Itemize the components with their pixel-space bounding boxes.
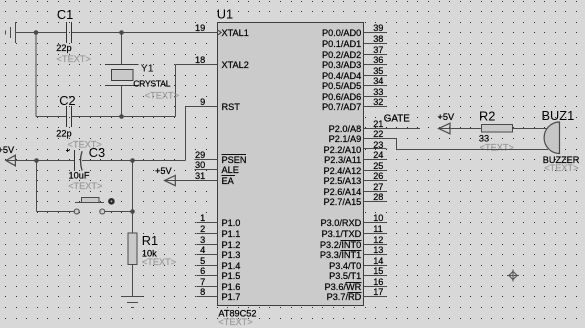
wire C2 row left xyxy=(36,116,66,118)
svg-text:R2: R2 xyxy=(479,108,495,123)
svg-text:26: 26 xyxy=(373,171,383,181)
svg-text:P0.1/AD1: P0.1/AD1 xyxy=(322,39,361,49)
pin 1 P1.0 xyxy=(197,222,218,224)
svg-text:1: 1 xyxy=(200,213,205,223)
svg-text:C2: C2 xyxy=(59,93,75,108)
svg-text:P0.3/AD3: P0.3/AD3 xyxy=(322,60,361,70)
pin 23 P2.2/A10 xyxy=(364,148,387,150)
wire C3 to RST riser xyxy=(82,160,186,162)
pin 34 P0.5/AD5 xyxy=(364,85,387,87)
wire RST riser xyxy=(185,107,187,161)
svg-text:P2.6/A14: P2.6/A14 xyxy=(323,187,361,197)
svg-text:27: 27 xyxy=(373,182,383,192)
svg-text:21: 21 xyxy=(373,119,383,129)
svg-text:P3.6/WR: P3.6/WR xyxy=(325,282,362,292)
svg-text:C3: C3 xyxy=(89,145,105,160)
svg-text:P2.5/A13: P2.5/A13 xyxy=(323,176,361,186)
pin 2 P1.1 xyxy=(197,233,218,235)
svg-text:<TEXT>: <TEXT> xyxy=(480,143,514,153)
svg-text:22p: 22p xyxy=(56,129,71,139)
svg-text:36: 36 xyxy=(373,55,383,65)
svg-text:<TEXT>: <TEXT> xyxy=(218,317,252,327)
svg-text:+5V: +5V xyxy=(438,112,455,122)
svg-text:25: 25 xyxy=(373,161,383,171)
svg-text:<TEXT>: <TEXT> xyxy=(57,54,91,64)
svg-text:10uF: 10uF xyxy=(69,170,90,180)
svg-text:P1.6: P1.6 xyxy=(222,282,241,292)
button actuator marker xyxy=(108,198,115,205)
pin 11 P3.1/TXD xyxy=(364,233,387,235)
svg-text:29: 29 xyxy=(195,150,205,160)
wire R1 column xyxy=(132,161,134,234)
pin 30 ALE xyxy=(195,169,218,171)
svg-text:P2.2/A10: P2.2/A10 xyxy=(323,145,361,155)
svg-text:5: 5 xyxy=(200,256,205,266)
svg-text:18: 18 xyxy=(195,55,205,65)
svg-text:7: 7 xyxy=(200,277,205,287)
push button xyxy=(74,209,79,214)
crystal Y1 xyxy=(121,33,123,65)
node junction crystal bottom xyxy=(119,114,124,119)
svg-text:P1.2: P1.2 xyxy=(222,240,241,250)
svg-text:38: 38 xyxy=(373,34,383,44)
svg-text:R1: R1 xyxy=(142,233,158,248)
pin 27 P2.6/A14 xyxy=(364,191,387,193)
svg-text:P1.4: P1.4 xyxy=(222,261,241,271)
svg-text:3: 3 xyxy=(200,235,205,245)
svg-text:PSEN: PSEN xyxy=(222,155,247,165)
pin 29 PSEN xyxy=(195,159,218,161)
svg-text:35: 35 xyxy=(373,66,383,76)
svg-text:P1.0: P1.0 xyxy=(222,218,241,228)
capacitor C1 xyxy=(66,22,68,43)
pin 39 P0.0/AD0 xyxy=(364,32,387,34)
pin 22 P2.1/A9 xyxy=(364,138,397,140)
svg-text:U1: U1 xyxy=(217,6,233,21)
svg-text:P2.3/A11: P2.3/A11 xyxy=(324,155,361,165)
svg-text:32: 32 xyxy=(373,97,383,107)
svg-text:BUZ1: BUZ1 xyxy=(542,108,575,123)
svg-text:P2.7/A15: P2.7/A15 xyxy=(323,197,361,207)
pin 8 P1.7 xyxy=(197,296,218,298)
svg-text:P3.3/INT1: P3.3/INT1 xyxy=(320,250,361,260)
op: microcontroller U1 AT89C52 xyxy=(218,23,364,306)
pin 5 P1.4 xyxy=(197,265,218,267)
svg-text:15: 15 xyxy=(373,266,383,276)
svg-text:<TEXT>: <TEXT> xyxy=(544,163,578,173)
svg-text:P1.3: P1.3 xyxy=(222,250,241,260)
svg-text:22p: 22p xyxy=(56,43,71,53)
svg-text:11: 11 xyxy=(373,224,383,234)
svg-text:P1.7: P1.7 xyxy=(222,292,241,302)
svg-text:12: 12 xyxy=(373,235,383,245)
C3 polarity plus xyxy=(66,150,70,152)
pin 25 P2.4/A12 xyxy=(364,170,387,172)
svg-text:XTAL1: XTAL1 xyxy=(222,28,249,38)
svg-text:<TEXT>: <TEXT> xyxy=(145,90,179,100)
svg-text:16: 16 xyxy=(373,277,383,287)
svg-text:14: 14 xyxy=(373,256,383,266)
capacitor C2 xyxy=(66,106,68,127)
svg-text:9: 9 xyxy=(200,97,205,107)
pin 32 P0.7/AD7 xyxy=(364,106,387,108)
ground terminal (top left) xyxy=(15,22,17,43)
svg-text:P3.7/RD: P3.7/RD xyxy=(327,292,362,302)
svg-text:CRYSTAL: CRYSTAL xyxy=(133,78,171,88)
svg-text:<TEXT>: <TEXT> xyxy=(142,257,176,267)
node junction C3 / R1 column xyxy=(130,158,135,163)
svg-text:P0.7/AD7: P0.7/AD7 xyxy=(322,102,361,112)
wire ground branch down to C2 xyxy=(35,33,37,117)
svg-text:P3.1/TXD: P3.1/TXD xyxy=(321,229,361,239)
svg-text:P2.4/A12: P2.4/A12 xyxy=(323,166,361,176)
pin 16 P3.6/WR xyxy=(364,286,387,288)
svg-text:8: 8 xyxy=(200,287,205,297)
pin 7 P1.6 xyxy=(197,286,218,288)
svg-text:RST: RST xyxy=(222,102,241,112)
svg-text:23: 23 xyxy=(373,140,383,150)
svg-text:P0.6/AD6: P0.6/AD6 xyxy=(322,92,361,102)
svg-text:39: 39 xyxy=(373,23,383,33)
XTAL1 clock mark xyxy=(218,30,221,34)
pin 35 P0.4/AD4 xyxy=(364,75,387,77)
svg-text:17: 17 xyxy=(373,287,383,297)
wire XTAL2 riser xyxy=(175,65,177,117)
svg-text:EA: EA xyxy=(222,176,235,186)
pin 17 P3.7/RD xyxy=(364,296,387,298)
pin 26 P2.5/A13 xyxy=(364,180,387,182)
wire R1 to ground xyxy=(132,265,134,297)
wire C1 to XTAL1 xyxy=(72,32,218,34)
svg-text:XTAL2: XTAL2 xyxy=(222,60,249,70)
svg-text:P2.1/A9: P2.1/A9 xyxy=(329,134,362,144)
svg-text:31: 31 xyxy=(195,171,205,181)
pin 6 P1.5 xyxy=(197,275,218,277)
wire buzzer bottom xyxy=(397,149,549,151)
svg-text:GATE: GATE xyxy=(384,113,410,124)
resistor R2 xyxy=(482,125,513,133)
wire ground to C1 xyxy=(16,32,67,34)
svg-text:P3.4/T0: P3.4/T0 xyxy=(329,261,361,271)
pin 14 P3.4/T0 xyxy=(364,265,387,267)
pin 38 P0.1/AD1 xyxy=(364,43,387,45)
svg-text:+5V: +5V xyxy=(155,166,172,176)
svg-text:22: 22 xyxy=(373,129,383,139)
svg-text:+5V: +5V xyxy=(0,145,15,155)
svg-text:P1.5: P1.5 xyxy=(222,271,241,281)
buzzer BUZ1 xyxy=(544,122,559,154)
svg-text:P1.1: P1.1 xyxy=(222,229,241,239)
capacitor C3 electrolytic xyxy=(74,150,76,171)
svg-text:13: 13 xyxy=(373,245,383,255)
svg-text:28: 28 xyxy=(373,192,383,202)
svg-text:P3.5/T1: P3.5/T1 xyxy=(329,271,361,281)
svg-text:37: 37 xyxy=(373,45,383,55)
pin 3 P1.2 xyxy=(197,244,218,246)
pin 13 P3.3/INT1 xyxy=(364,254,387,256)
svg-text:P0.5/AD5: P0.5/AD5 xyxy=(322,81,361,91)
wire R2 to buzzer xyxy=(513,128,549,130)
wire button column xyxy=(36,161,38,212)
svg-text:Y1: Y1 xyxy=(141,62,154,74)
svg-text:P0.0/AD0: P0.0/AD0 xyxy=(322,28,361,38)
svg-text:ALE: ALE xyxy=(222,165,239,175)
svg-text:<TEXT>: <TEXT> xyxy=(68,181,102,191)
svg-text:2: 2 xyxy=(200,224,205,234)
pin 4 P1.3 xyxy=(197,254,218,256)
pin 12 P3.2/INT0 xyxy=(364,244,387,246)
resistor R1 xyxy=(128,233,137,265)
wire C2 to XTAL2 riser xyxy=(72,116,176,118)
svg-text:30: 30 xyxy=(195,160,205,170)
pin 15 P3.5/T1 xyxy=(364,275,387,277)
pin 33 P0.6/AD6 xyxy=(364,96,387,98)
svg-text:P3.0/RXD: P3.0/RXD xyxy=(320,218,361,228)
svg-text:P3.2/INT0: P3.2/INT0 xyxy=(320,240,361,250)
svg-text:P2.0/A8: P2.0/A8 xyxy=(329,124,362,134)
svg-text:4: 4 xyxy=(200,245,205,255)
svg-text:P0.4/AD4: P0.4/AD4 xyxy=(322,71,361,81)
svg-text:19: 19 xyxy=(195,23,205,33)
pin 24 P2.3/A11 xyxy=(364,159,387,161)
node junction button / R1 column xyxy=(130,209,135,214)
svg-text:6: 6 xyxy=(200,266,205,276)
svg-text:24: 24 xyxy=(373,150,383,160)
ground (below R1) xyxy=(121,296,143,298)
pin 10 P3.0/RXD xyxy=(364,222,387,224)
svg-text:34: 34 xyxy=(373,76,383,86)
node junction crystal top xyxy=(119,30,124,35)
pin 37 P0.2/AD2 xyxy=(364,54,387,56)
pin 21 P2.0/A8 xyxy=(364,128,421,130)
svg-text:P0.2/AD2: P0.2/AD2 xyxy=(322,50,361,60)
pin 36 P0.3/AD3 xyxy=(364,64,387,66)
svg-text:33: 33 xyxy=(373,87,383,97)
svg-text:10: 10 xyxy=(373,213,383,223)
svg-text:C1: C1 xyxy=(57,7,73,22)
node junction +5V / button column xyxy=(34,158,39,163)
node junction ground rail xyxy=(34,30,39,35)
pin 28 P2.7/A15 xyxy=(364,201,387,203)
wire button to R1 column xyxy=(105,211,133,213)
sheet origin marker xyxy=(507,270,519,282)
